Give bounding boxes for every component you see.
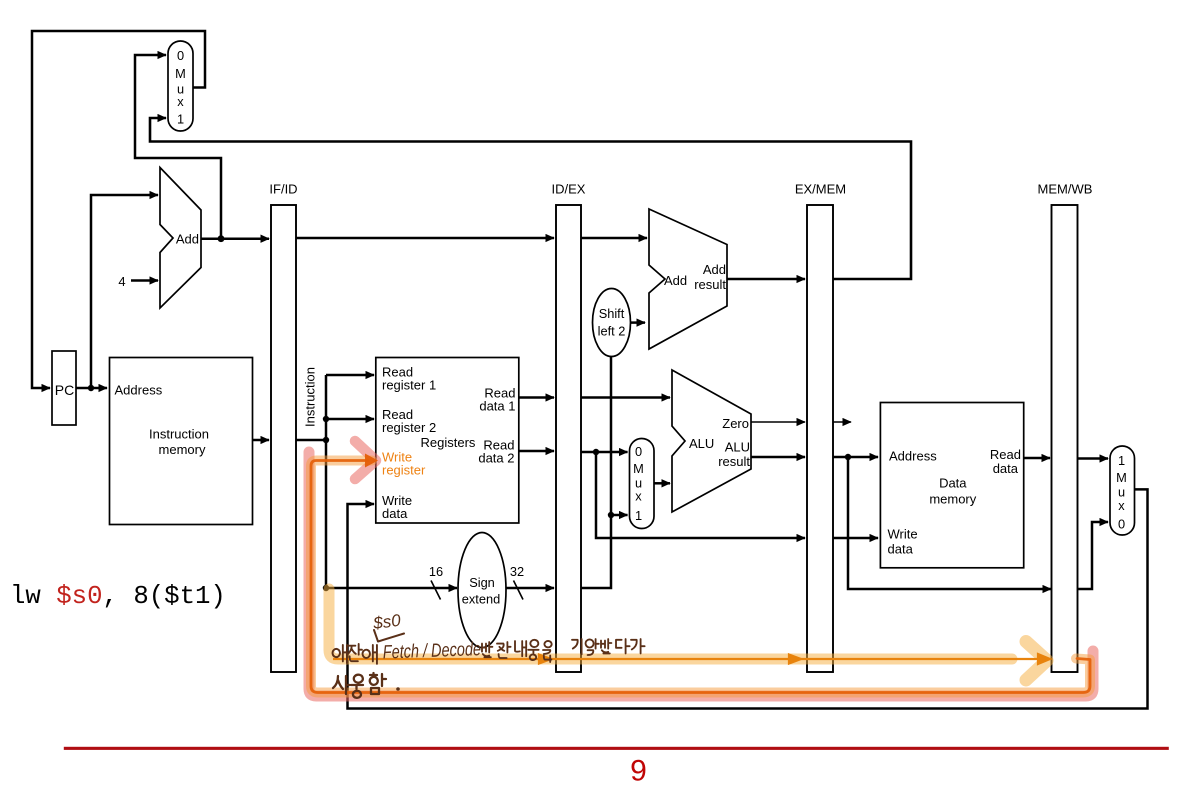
svg-text:x: x [635,489,642,504]
svg-text:1: 1 [635,508,642,523]
svg-text:Write: Write [888,527,918,542]
svg-text:1: 1 [177,112,184,127]
svg-text:result: result [694,277,726,292]
svg-text:ID/EX: ID/EX [552,182,586,197]
svg-text:Sign: Sign [469,575,495,590]
svg-text:ALU: ALU [725,440,750,455]
svg-text:1: 1 [1118,453,1125,468]
svg-text:memory: memory [159,442,206,457]
svg-text:16: 16 [429,564,443,579]
svg-text:0: 0 [177,48,184,63]
svg-text:register: register [382,463,426,478]
svg-text:0: 0 [1118,517,1125,532]
svg-text:Registers: Registers [421,435,476,450]
svg-text:Add: Add [176,232,199,247]
svg-text:9: 9 [630,755,647,788]
svg-text:Zero: Zero [722,416,749,431]
svg-text:M: M [1116,470,1127,485]
svg-text:ALU: ALU [689,436,714,451]
svg-text:IF/ID: IF/ID [269,182,297,197]
svg-text:result: result [718,454,750,469]
svg-text:x: x [177,94,184,109]
svg-text:Add: Add [664,273,687,288]
svg-text:$s0: $s0 [371,611,402,633]
svg-text:Instruction: Instruction [303,367,318,427]
svg-text:Address: Address [115,383,163,398]
svg-text:0: 0 [635,444,642,459]
svg-text:data: data [382,506,408,521]
svg-text:register 2: register 2 [382,420,436,435]
svg-text:x: x [1118,498,1125,513]
svg-text:data 1: data 1 [479,399,515,414]
svg-text:M: M [633,461,644,476]
svg-text:Read: Read [990,447,1021,462]
svg-text:extend: extend [462,592,500,607]
svg-text:Fetch / Decode: Fetch / Decode [382,638,481,663]
svg-text:Instruction: Instruction [149,427,209,442]
svg-text:data: data [993,461,1019,476]
svg-text:memory: memory [929,492,976,507]
svg-text:MEM/WB: MEM/WB [1038,182,1093,197]
svg-text:M: M [175,66,186,81]
svg-text:EX/MEM: EX/MEM [795,182,846,197]
svg-text:Data: Data [939,476,967,491]
svg-text:Shift: Shift [599,306,625,321]
svg-text:data 2: data 2 [478,451,514,466]
svg-text:4: 4 [118,274,125,289]
svg-text:data: data [888,542,914,557]
svg-text:Address: Address [889,449,937,464]
svg-text:lw $s0, 8($t1): lw $s0, 8($t1) [10,582,226,611]
svg-text:PC: PC [55,382,74,398]
svg-text:left 2: left 2 [598,324,626,339]
svg-text:32: 32 [510,564,524,579]
svg-text:register 1: register 1 [382,378,436,393]
svg-text:Add: Add [703,262,726,277]
